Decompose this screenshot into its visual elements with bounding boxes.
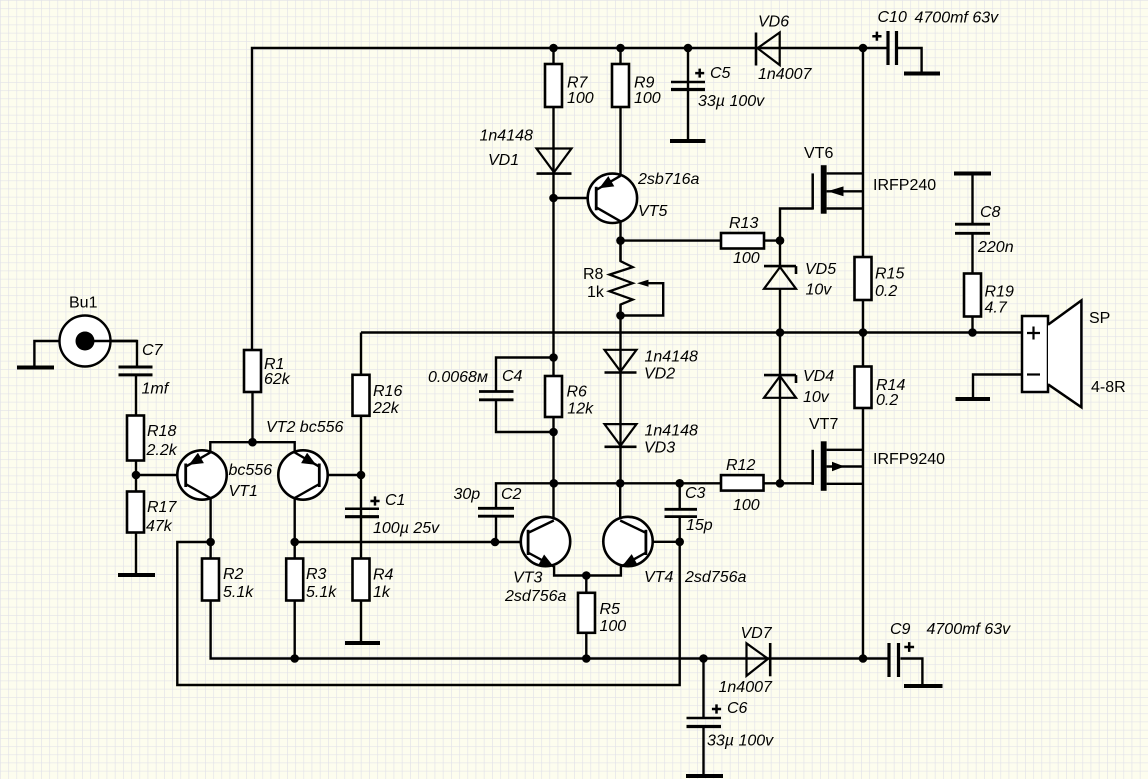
svg-text:100: 100 (634, 90, 661, 107)
capacitor C3 (665, 509, 698, 516)
svg-text:0.2: 0.2 (876, 392, 898, 409)
wire: C8/R19 zobel vertical (971, 174, 973, 333)
plus sign C5 (695, 69, 704, 78)
resistor R3 (286, 559, 303, 601)
node: R7 top on positive rail (549, 44, 558, 53)
svg-text:VD1: VD1 (488, 152, 519, 169)
resistor R18 (127, 416, 144, 461)
svg-text:VD2: VD2 (644, 366, 675, 383)
svg-text:R19: R19 (985, 284, 1014, 301)
node: C2 bottom / VT3 base (491, 538, 500, 547)
node: C6 on negative rail (699, 654, 708, 663)
svg-text:VD7: VD7 (741, 625, 773, 642)
wire: C4 top lead (496, 358, 554, 392)
wire: output rail to speaker plus (361, 331, 1022, 333)
svg-text:C1: C1 (385, 492, 405, 509)
capacitor C9 polarized (889, 643, 899, 677)
wire: VT4 base lead from C3 node (646, 541, 680, 543)
resistor R17 (127, 492, 144, 533)
resistor R7 (545, 64, 562, 107)
node: VD5/VD4 on output rail (776, 328, 785, 337)
wire: VT5 collector down to R13 node (619, 222, 621, 241)
svg-text:VT3: VT3 (513, 570, 542, 587)
wire: C2 top lead to y483 line across to R12 (496, 483, 721, 508)
svg-text:R3: R3 (306, 566, 327, 583)
svg-text:2sd756a: 2sd756a (684, 569, 746, 586)
wire: right vertical x=863 top rail to negative rail (drain/source chain) (862, 48, 864, 659)
wire: R8 wiper (621, 283, 664, 315)
svg-text:bc556: bc556 (229, 462, 273, 479)
node: VT2 collector / R3 (290, 538, 299, 547)
ground bar (C8 top) (954, 172, 991, 176)
node: C3 bottom / VT4 base / feedback (675, 538, 684, 547)
wire: VT2 base lead to R16/C1 node (319, 474, 361, 476)
node: R3 bottom on negative rail (290, 654, 299, 663)
wire: VT7 drain lead (827, 483, 863, 485)
svg-text:R7: R7 (567, 75, 589, 92)
wire: VT6 arrow lead (827, 190, 863, 192)
wire: C10 plus lead to ground (897, 48, 922, 72)
resistor R1 (244, 350, 261, 392)
resistor R14 (855, 367, 872, 409)
node: VT6 gate / VD5 (776, 236, 785, 245)
node: VD1/VT5 base (549, 194, 558, 203)
node: C3 top (675, 479, 684, 488)
svg-text:R2: R2 (223, 566, 244, 583)
diode VD1 1n4148 (537, 149, 572, 174)
svg-text:R17: R17 (147, 499, 177, 516)
plus sign C6 (712, 704, 721, 713)
node: R9 top on positive rail (616, 44, 625, 53)
node: C10 / VT6 drain on positive rail (859, 44, 868, 53)
capacitor C8 (955, 224, 990, 233)
diode VD7 1n4007 (747, 643, 771, 676)
svg-text:22k: 22k (372, 400, 400, 417)
resistor R4 (353, 559, 370, 601)
mosfet VT7 IRFP9240 (813, 441, 845, 491)
svg-text:R18: R18 (147, 423, 176, 440)
wire: input jack to C7 (111, 341, 137, 366)
ground (C10) (904, 72, 940, 76)
svg-text:5.1k: 5.1k (223, 584, 254, 601)
node: VT3 collector / C2 top (550, 479, 559, 488)
wire: R12 right lead (764, 482, 781, 484)
svg-text:C9: C9 (890, 621, 911, 638)
resistor R2 (202, 559, 219, 601)
svg-text:47k: 47k (146, 518, 173, 535)
svg-text:VT1: VT1 (229, 483, 258, 500)
zener VD5 (764, 266, 796, 289)
capacitor C10 polarized (888, 31, 897, 65)
svg-text:100: 100 (733, 497, 760, 514)
ground (C9) (904, 684, 943, 688)
node: R12 / VD4 / VT7 gate (776, 479, 785, 488)
svg-text:2sb716a: 2sb716a (637, 171, 699, 188)
wire: VT1/VT2 emitter rail with R1 (210, 392, 294, 453)
svg-text:0.2: 0.2 (875, 283, 897, 300)
wire: C5 branch down to ground (687, 48, 689, 140)
wire: VT7 gate lead (780, 482, 813, 484)
svg-text:12k: 12k (567, 401, 594, 418)
svg-text:C5: C5 (710, 65, 731, 82)
svg-text:R15: R15 (875, 266, 904, 283)
wire: C3 vertical through feedback node (679, 483, 681, 542)
svg-text:VD6: VD6 (758, 14, 789, 31)
svg-text:VD3: VD3 (644, 440, 675, 457)
svg-text:5.1k: 5.1k (306, 584, 337, 601)
resistor R19 (964, 274, 981, 317)
svg-text:IRFP240: IRFP240 (873, 177, 936, 194)
wire: VT5 base lead (554, 197, 597, 199)
svg-text:15p: 15p (686, 517, 713, 534)
wire: C6 branch to ground (702, 659, 704, 775)
transistor VT1 (177, 450, 226, 499)
svg-text:VT4: VT4 (644, 569, 673, 586)
node: R16/C1/VT2 base (357, 471, 366, 480)
wire: VT7 arrow lead (827, 465, 863, 467)
wire: positive top rail from R1 corner to VD6 (252, 48, 887, 350)
wire: VT6 drain lead (827, 172, 863, 174)
svg-text:1n4007: 1n4007 (719, 679, 773, 696)
resistor R9 (612, 64, 629, 107)
transistor VT4 (603, 517, 652, 567)
node: R6/C4 top (549, 353, 558, 362)
svg-text:1n4148: 1n4148 (480, 128, 533, 145)
svg-text:SP: SP (1089, 310, 1110, 327)
svg-text:1n4007: 1n4007 (758, 66, 812, 83)
svg-text:4700mf 63v: 4700mf 63v (927, 621, 1012, 638)
svg-text:1k: 1k (587, 284, 605, 301)
wire: C7 to R18 to R17 to ground (135, 374, 137, 574)
node: VT5 collector / R13 / R8 (616, 236, 625, 245)
potentiometer R8 (610, 241, 649, 316)
node: VT1 collector / R2 (206, 538, 215, 547)
ground (speaker) (956, 397, 991, 401)
wire: VT2 collector line to VT3 base (295, 541, 528, 543)
resistor R12 (721, 475, 764, 491)
svg-text:10v: 10v (806, 282, 833, 299)
node: R6/C4 bottom (549, 428, 558, 437)
svg-text:220n: 220n (977, 239, 1014, 256)
ground (C6) (686, 774, 723, 778)
wire: negative bottom rail (211, 559, 888, 659)
wire: R16 bottom to C1 to R4 to ground (360, 415, 362, 641)
svg-text:VD5: VD5 (805, 261, 836, 278)
plus sign C9 (904, 642, 914, 652)
wire: VD3 to VT4 collector (619, 483, 621, 519)
wire: jack sleeve to ground (34, 341, 60, 366)
svg-text:4.7: 4.7 (985, 300, 1008, 317)
svg-text:VT5: VT5 (638, 203, 667, 220)
wire: R16 top corner from output rail (360, 333, 362, 375)
resistor R16 (353, 375, 370, 416)
svg-text:VD4: VD4 (803, 368, 834, 385)
wire: R13 horizontal leads (621, 239, 781, 241)
svg-text:R4: R4 (373, 567, 394, 584)
diode VD2 1n4148 (605, 350, 637, 373)
plus sign C1 (370, 496, 379, 505)
svg-text:R8: R8 (583, 266, 604, 283)
svg-text:C3: C3 (685, 485, 706, 502)
svg-text:4-8R: 4-8R (1091, 379, 1126, 396)
wire: VT1 collector down to R2 (209, 498, 211, 559)
ground (R17) (118, 573, 155, 577)
svg-text:1k: 1k (373, 584, 391, 601)
wire: VT7 source lead (827, 449, 863, 451)
wire: C4 bottom lead (496, 400, 554, 433)
wire: R3 bottom to rail (294, 601, 296, 659)
svg-text:R9: R9 (634, 75, 655, 92)
svg-text:100: 100 (600, 618, 627, 635)
svg-text:C8: C8 (980, 204, 1001, 221)
wire: VT2 collector down to R3 (294, 498, 296, 559)
wire: VT6 source lead (827, 207, 863, 209)
svg-text:R12: R12 (726, 457, 755, 474)
mosfet VT6 IRFP240 (813, 165, 844, 214)
wire: C2 bottom lead (495, 516, 497, 542)
svg-text:C4: C4 (502, 368, 523, 385)
ground (input jack) (17, 366, 54, 370)
svg-text:VT2 bc556: VT2 bc556 (266, 419, 343, 436)
resistor R13 (721, 233, 764, 249)
svg-text:2.2k: 2.2k (146, 442, 178, 459)
svg-text:R6: R6 (567, 383, 588, 400)
node: VT3/VT4 emitters / R5 (582, 571, 591, 580)
wire: VT1 base lead (136, 474, 186, 476)
wire: R7/VD1 branch vertical x=553 (552, 48, 554, 520)
zener VD4 (764, 375, 796, 398)
svg-text:33µ 100v: 33µ 100v (698, 93, 765, 110)
svg-text:100µ 25v: 100µ 25v (373, 520, 440, 537)
svg-text:10v: 10v (803, 389, 830, 406)
svg-text:100: 100 (733, 250, 760, 267)
connector Bu1 (60, 316, 138, 367)
ground (R4) (345, 641, 380, 645)
svg-text:C2: C2 (501, 486, 522, 503)
wire: speaker minus to ground (973, 375, 1022, 398)
capacitor C4 (479, 392, 514, 400)
node: R15/R14 on output rail (859, 328, 868, 337)
svg-text:62k: 62k (264, 371, 291, 388)
wire: VD5 anode to output rail (779, 289, 781, 333)
svg-text:VT6: VT6 (804, 145, 833, 162)
svg-text:1n4148: 1n4148 (645, 423, 698, 440)
node: R18/R17/VT1 base (132, 471, 141, 480)
ground (C5) (670, 139, 706, 143)
diode VD6 1n4007 (756, 33, 780, 66)
svg-text:100: 100 (567, 90, 594, 107)
svg-text:R16: R16 (373, 383, 402, 400)
svg-text:4700mf 63v: 4700mf 63v (915, 9, 1000, 26)
svg-text:IRFP9240: IRFP9240 (873, 451, 945, 468)
svg-text:2sd756a: 2sd756a (504, 588, 566, 605)
wire: VT1 collector node to feedback loop left leg (177, 542, 679, 685)
plus sign C10 (872, 32, 881, 41)
diode VD3 1n4148 (605, 424, 637, 447)
svg-text:1mf: 1mf (142, 381, 170, 398)
svg-text:0.0068м: 0.0068м (428, 369, 488, 386)
node: VT7 drain / C9 on negative rail (859, 654, 868, 663)
resistor R5 (578, 593, 595, 633)
wire: VT6 gate branch (780, 209, 813, 267)
node: R5 bottom on negative rail (582, 654, 591, 663)
speaker SP (1022, 301, 1081, 408)
svg-text:C10: C10 (878, 9, 907, 26)
node: VD3 / VT4 collector (616, 479, 625, 488)
node: R8 wiper bottom (616, 311, 625, 320)
svg-text:C6: C6 (727, 700, 748, 717)
svg-text:30p: 30p (454, 486, 481, 503)
svg-text:Bu1: Bu1 (69, 295, 98, 312)
capacitor C5 polarized (671, 81, 705, 84)
transistor VT3 (521, 517, 570, 567)
capacitor C6 polarized (687, 717, 722, 720)
resistor R15 (855, 257, 872, 300)
node: R19 on output rail (968, 328, 977, 337)
svg-text:R13: R13 (729, 215, 758, 232)
wire: VD4 chain output rail to VT7 gate node (779, 333, 781, 484)
svg-text:VT7: VT7 (809, 416, 838, 433)
wire: VT3/VT4 emitter line and R5 (554, 566, 621, 659)
transistor VT2 (278, 450, 327, 499)
node: C5 top on positive rail (684, 44, 693, 53)
node: emitter rail / R1 (248, 438, 257, 447)
svg-text:1n4148: 1n4148 (645, 349, 698, 366)
capacitor C2 (478, 508, 514, 516)
svg-text:33µ 100v: 33µ 100v (707, 733, 774, 750)
wire: C9 to ground (900, 659, 922, 685)
svg-text:C7: C7 (142, 342, 164, 359)
capacitor C7 (119, 367, 153, 375)
wire: R8 top to VD2/VD3 chain down to y483 line (619, 241, 621, 484)
svg-text:R5: R5 (600, 601, 621, 618)
transistor VT5 (588, 174, 637, 223)
wire: R9 branch down to VT5 emitter (619, 48, 621, 177)
resistor R6 (545, 376, 562, 417)
capacitor C1 polarized (345, 507, 379, 510)
